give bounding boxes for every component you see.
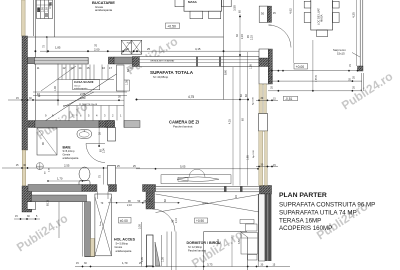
stair bottom wall	[28, 121, 35, 128]
svg-text:2,55: 2,55	[64, 164, 70, 168]
svg-text:Gresie: Gresie	[115, 245, 123, 249]
svg-text:30: 30	[261, 12, 265, 16]
svg-text:3,50: 3,50	[48, 3, 52, 9]
insulation strips	[259, 84, 262, 114]
svg-text:2,20: 2,20	[251, 35, 254, 40]
svg-text:S=5,10mp: S=5,10mp	[63, 149, 75, 153]
window band north living room	[139, 57, 259, 67]
stair landing lines	[33, 91, 127, 93]
counter details	[37, 8, 40, 13]
hol door arc	[153, 209, 176, 232]
step numbers upper	[37, 66, 133, 70]
long vertical reference lines	[223, 0, 225, 100]
corner wall box	[259, 49, 268, 84]
svg-text:4,25: 4,25	[229, 119, 232, 124]
svg-text:antiderapanta: antiderapanta	[95, 8, 113, 12]
toilet	[79, 167, 90, 181]
dining table LOC DE LUAT MASA	[311, 0, 333, 30]
bath south wall	[28, 185, 82, 192]
mullion	[240, 186, 243, 192]
svg-text:Gresie: Gresie	[63, 153, 71, 157]
stair flight divider	[57, 64, 59, 106]
svg-text:GRINDA BETON ARMAT: GRINDA BETON ARMAT	[150, 59, 175, 62]
wall pier hatched	[82, 185, 97, 192]
level box +0.00	[294, 64, 308, 70]
svg-text:2,60: 2,60	[38, 7, 41, 12]
svg-text:S= 5,96mp: S= 5,96mp	[116, 241, 129, 245]
svg-text:CASA SCARII: CASA SCARII	[74, 80, 94, 84]
level box +0.50	[166, 23, 180, 29]
entrance pier	[147, 235, 154, 266]
svg-text:TERASA 16MP: TERASA 16MP	[279, 217, 321, 224]
bath-hol partition lower	[108, 166, 116, 186]
right wall solid lower	[259, 194, 265, 261]
svg-text:antiderapanta: antiderapanta	[74, 87, 88, 90]
roof edge double line	[359, 0, 361, 66]
svg-text:8,60: 8,60	[224, 69, 228, 75]
timber post 15x15	[358, 66, 364, 71]
svg-text:2,10: 2,10	[127, 204, 132, 207]
svg-text:3,73: 3,73	[207, 263, 213, 267]
svg-text:MASA: MASA	[320, 14, 324, 22]
svg-text:PLAN PARTER: PLAN PARTER	[279, 192, 327, 199]
svg-text:antiderapanta: antiderapanta	[63, 156, 79, 160]
svg-text:Np 0.90: Np 0.90	[253, 97, 255, 105]
kitchen edge wall line	[54, 0, 56, 37]
svg-text:S= 40,95mp: S= 40,95mp	[153, 75, 169, 79]
hol partition hatched	[146, 192, 155, 209]
door gap jambs	[87, 57, 89, 64]
svg-text:+0.50: +0.50	[167, 24, 176, 28]
bath partition wall hatched	[106, 121, 115, 128]
chair	[304, 13, 311, 23]
svg-text:BAIE: BAIE	[63, 146, 72, 150]
dim 15 30 5	[14, 218, 40, 219]
chair	[209, 11, 221, 19]
svg-text:3,50: 3,50	[238, 239, 241, 244]
svg-text:+0.90: +0.90	[196, 219, 204, 223]
dim line bath	[2, 167, 140, 168]
svg-text:Firida: Firida	[127, 43, 133, 45]
svg-text:Grinda: Grinda	[202, 202, 209, 205]
bath north wall east segment	[124, 121, 140, 128]
roof grinda X brace	[156, 194, 263, 213]
svg-text:2,80: 2,80	[80, 96, 86, 100]
bath door pier	[108, 128, 116, 142]
south window living room	[156, 185, 260, 187]
svg-text:5,05: 5,05	[180, 164, 186, 168]
svg-text:3,00: 3,00	[139, 224, 142, 229]
level box -0,51	[284, 96, 298, 101]
dim 4,75	[137, 99, 249, 101]
mullion	[224, 186, 227, 192]
entry door arc right	[269, 25, 292, 48]
svg-text:ACOPERIS 160MP: ACOPERIS 160MP	[279, 225, 332, 232]
svg-text:SUPARAFATA UTILA 74 MP: SUPARAFATA UTILA 74 MP	[279, 209, 357, 216]
chair	[190, 11, 203, 19]
stair west line	[34, 0, 36, 121]
svg-text:2,00: 2,00	[94, 48, 100, 52]
svg-text:Parchet laminat: Parchet laminat	[188, 249, 206, 253]
level box +0.90	[195, 218, 208, 223]
stair upper steps	[58, 65, 114, 80]
stair direction lines	[45, 71, 121, 121]
bottom dim chain	[75, 266, 290, 267]
svg-text:a (8x5): a (8x5)	[316, 75, 318, 82]
sink	[77, 130, 92, 138]
left wall opening insulation	[22, 150, 25, 186]
legend text	[279, 192, 375, 232]
wall stub left	[28, 57, 35, 63]
svg-text:1,00: 1,00	[54, 86, 57, 91]
svg-text:SUPRAFATA CONSTRUITA 96 MP: SUPRAFATA CONSTRUITA 96 MP	[279, 201, 375, 208]
stair right wall	[117, 65, 125, 91]
svg-text:±0.00: ±0.00	[120, 219, 128, 223]
terrace wall horizontal	[32, 195, 87, 202]
svg-text:antiderapanta: antiderapanta	[116, 249, 132, 253]
dormitor interior outline	[204, 231, 247, 233]
chair	[304, 1, 311, 8]
wall pier hatched	[143, 185, 156, 192]
svg-text:+0.00: +0.00	[296, 65, 305, 69]
svg-text:Parchet laminat: Parchet laminat	[173, 125, 193, 129]
dim 30 15	[256, 100, 278, 101]
dim vertical hol	[141, 222, 143, 267]
terrace window X	[95, 194, 112, 256]
chair	[317, 30, 328, 37]
step numbers lower	[45, 114, 122, 118]
insulation strip top-left	[22, 0, 26, 36]
floor drain symbol	[36, 163, 43, 170]
chair	[333, 1, 340, 8]
right wall: box 30	[259, 6, 267, 22]
svg-text:4,15: 4,15	[195, 47, 201, 51]
wall segment	[114, 57, 132, 64]
level box 0.00 hol	[119, 218, 132, 224]
dining table MASA	[184, 0, 222, 11]
svg-text:4,75: 4,75	[188, 95, 194, 99]
right dim line y70.7	[268, 70, 362, 71]
svg-text:-0,51: -0,51	[285, 97, 292, 101]
wall pier hatched	[99, 121, 114, 128]
stair lower steps	[63, 106, 124, 121]
svg-text:1,70: 1,70	[57, 177, 63, 181]
sofa / window seat	[161, 175, 231, 184]
bath door arc	[86, 144, 105, 163]
corner notch	[27, 202, 35, 210]
svg-text:3,50: 3,50	[233, 5, 237, 11]
svg-text:Np 0.90: Np 0.90	[253, 150, 255, 158]
insulation strips long	[259, 131, 263, 186]
corner column hatched south-east	[260, 186, 272, 195]
insulation strip	[91, 239, 95, 257]
right wall window box 2	[259, 114, 268, 132]
svg-text:1,85: 1,85	[55, 45, 61, 49]
svg-text:3,50: 3,50	[217, 239, 220, 244]
svg-text:25: 25	[147, 47, 151, 51]
svg-text:2,90: 2,90	[42, 7, 45, 12]
svg-text:2,20: 2,20	[241, 34, 244, 39]
furniture dormitor	[240, 220, 254, 224]
terrace wall vertical	[85, 202, 91, 257]
svg-text:MASA: MASA	[188, 0, 198, 4]
kitchen counter	[37, 0, 53, 19]
svg-text:80,15: 80,15	[47, 199, 50, 206]
left exterior wall hatched	[22, 36, 28, 150]
svg-text:5mm: 5mm	[100, 221, 102, 226]
wall pier hatched	[109, 185, 117, 192]
svg-text:DORMITOR / BIROU: DORMITOR / BIROU	[187, 241, 221, 245]
svg-text:30: 30	[126, 47, 130, 51]
svg-text:1,85: 1,85	[247, 155, 250, 160]
shower	[37, 128, 57, 155]
svg-text:15x15: 15x15	[337, 52, 345, 56]
left wall corner hatched	[22, 186, 32, 212]
top dim chain	[35, 37, 262, 53]
svg-text:4,25: 4,25	[352, 12, 356, 18]
svg-text:2,10: 2,10	[175, 218, 178, 223]
wall pier hatched	[132, 57, 139, 67]
svg-text:HOL ACCES: HOL ACCES	[114, 238, 136, 242]
chair	[333, 13, 340, 23]
svg-text:1,05: 1,05	[126, 80, 129, 85]
left dim line mid	[8, 99, 57, 100]
svg-text:S= 12,99mp: S= 12,99mp	[188, 245, 203, 249]
svg-text:2,04: 2,04	[103, 148, 106, 153]
svg-text:1,38: 1,38	[250, 64, 253, 69]
wall line	[33, 0, 35, 36]
closet under stairs	[34, 57, 88, 64]
wall pier hatched	[109, 57, 115, 64]
dim 30 15 lower	[256, 166, 278, 167]
dim vertical 80,15	[58, 202, 60, 238]
svg-text:1,00: 1,00	[162, 257, 165, 262]
entrance door leaf	[155, 242, 160, 266]
svg-text:4,62: 4,62	[289, 8, 293, 14]
label box	[73, 80, 100, 90]
svg-text:1,70: 1,70	[122, 261, 128, 265]
chimney box with X	[121, 40, 141, 54]
dim 5,05	[136, 168, 258, 170]
door jambs	[97, 192, 99, 200]
